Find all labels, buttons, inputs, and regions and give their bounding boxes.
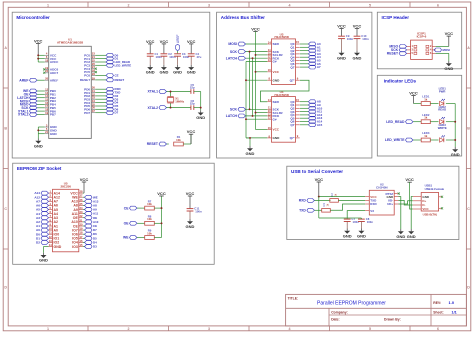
svg-text:XTAL2: XTAL2 — [148, 106, 159, 110]
svg-text:5: 5 — [369, 3, 371, 7]
svg-text:4: 4 — [289, 3, 291, 7]
svg-text:VCC: VCC — [146, 39, 155, 44]
svg-text:RESET: RESET — [80, 78, 90, 82]
svg-text:VCC: VCC — [187, 39, 196, 44]
svg-text:VCC: VCC — [353, 24, 362, 29]
svg-text:PC6: PC6 — [84, 74, 90, 78]
svg-text:SCK: SCK — [230, 108, 238, 112]
svg-text:D: D — [467, 285, 470, 289]
svg-text:20: 20 — [45, 77, 48, 81]
svg-text:28C256: 28C256 — [60, 185, 71, 189]
svg-text:18: 18 — [45, 58, 48, 62]
svg-text:AREF: AREF — [50, 78, 58, 82]
svg-text:24: 24 — [80, 206, 83, 210]
svg-text:B: B — [467, 126, 470, 130]
svg-text:25: 25 — [80, 202, 83, 206]
svg-text:IO3: IO3 — [72, 245, 78, 249]
svg-text:GND: GND — [273, 78, 281, 82]
svg-text:VCC: VCC — [422, 207, 429, 211]
svg-text:D2: D2 — [36, 241, 40, 245]
svg-text:15: 15 — [296, 98, 299, 102]
svg-text:RXD: RXD — [370, 202, 377, 206]
svg-text:30: 30 — [92, 86, 95, 90]
svg-text:19: 19 — [45, 66, 48, 70]
svg-text:20: 20 — [80, 223, 83, 227]
svg-text:REV:: REV: — [433, 301, 441, 305]
svg-text:LED_READ: LED_READ — [386, 120, 405, 124]
svg-text:10k: 10k — [176, 138, 181, 142]
svg-text:UD+: UD+ — [387, 202, 393, 206]
svg-text:SER: SER — [273, 100, 280, 104]
svg-text:PWR: PWR — [439, 89, 446, 93]
svg-text:4: 4 — [289, 327, 291, 331]
svg-text:EEPROM ZIF Socket: EEPROM ZIF Socket — [17, 166, 62, 171]
svg-text:GND: GND — [146, 70, 155, 75]
svg-text:12: 12 — [45, 87, 48, 91]
svg-text:V3: V3 — [370, 209, 374, 213]
svg-text:10k: 10k — [147, 202, 152, 206]
svg-text:15: 15 — [80, 243, 83, 247]
svg-text:WE: WE — [123, 236, 129, 240]
svg-text:LED_WRITE: LED_WRITE — [385, 138, 405, 142]
svg-text:D7: D7 — [115, 111, 119, 115]
svg-text:21: 21 — [80, 218, 83, 222]
svg-text:AREF: AREF — [176, 34, 180, 43]
svg-text:29: 29 — [92, 76, 95, 80]
svg-text:TITLE:: TITLE: — [288, 297, 299, 301]
svg-text:XTAL2: XTAL2 — [18, 113, 29, 117]
svg-text:VCC: VCC — [160, 39, 169, 44]
svg-text:32: 32 — [92, 92, 95, 96]
svg-text:Drawn By:: Drawn By: — [384, 318, 401, 322]
svg-text:27: 27 — [92, 65, 95, 69]
svg-text:19: 19 — [45, 111, 48, 115]
svg-text:LATCH: LATCH — [226, 56, 238, 60]
svg-text:6: 6 — [437, 3, 439, 7]
svg-text:Q7': Q7' — [290, 78, 295, 82]
svg-text:1.0: 1.0 — [449, 300, 455, 305]
svg-text:GND: GND — [444, 66, 453, 71]
svg-text:3: 3 — [208, 3, 210, 7]
svg-text:RESET: RESET — [147, 142, 159, 146]
svg-text:CH340N: CH340N — [376, 186, 388, 190]
svg-text:74HC595D: 74HC595D — [274, 35, 290, 39]
svg-text:SER: SER — [273, 42, 280, 46]
svg-text:100n: 100n — [169, 55, 176, 59]
svg-text:AREF: AREF — [19, 78, 28, 82]
svg-text:Indicator LEDs: Indicator LEDs — [384, 78, 417, 83]
svg-text:22p: 22p — [190, 86, 195, 90]
svg-text:22p: 22p — [190, 102, 195, 106]
svg-text:PB7: PB7 — [50, 113, 56, 117]
svg-text:1k: 1k — [424, 134, 428, 138]
svg-text:12: 12 — [49, 235, 52, 239]
svg-text:17: 17 — [80, 235, 83, 239]
svg-text:3: 3 — [208, 327, 210, 331]
svg-text:100n: 100n — [156, 55, 163, 59]
svg-text:VCC: VCC — [337, 24, 346, 29]
svg-text:GND: GND — [396, 234, 405, 239]
svg-text:G#: G# — [273, 117, 277, 121]
svg-text:14: 14 — [49, 243, 52, 247]
svg-text:GND: GND — [273, 136, 281, 140]
svg-text:1k: 1k — [424, 97, 428, 101]
svg-text:A15: A15 — [317, 123, 323, 127]
svg-text:SCK: SCK — [230, 50, 238, 54]
svg-text:22: 22 — [80, 214, 83, 218]
svg-text:A: A — [4, 46, 7, 50]
svg-text:PD7: PD7 — [84, 111, 90, 115]
svg-text:Address Bus Shifter: Address Bus Shifter — [221, 15, 265, 20]
svg-text:GND: GND — [357, 233, 366, 238]
svg-text:B: B — [4, 126, 7, 130]
svg-text:2: 2 — [128, 3, 130, 7]
svg-text:GND: GND — [159, 70, 168, 75]
svg-text:ICSP-6: ICSP-6 — [417, 35, 427, 39]
svg-text:GND: GND — [337, 55, 346, 60]
svg-text:11: 11 — [49, 231, 52, 235]
svg-text:GND: GND — [407, 234, 416, 239]
svg-text:GND: GND — [451, 152, 460, 157]
svg-text:14: 14 — [268, 98, 271, 102]
svg-text:XTAL1: XTAL1 — [148, 90, 159, 94]
svg-text:16: 16 — [268, 68, 271, 72]
svg-text:MOSI: MOSI — [228, 42, 237, 46]
svg-text:1: 1 — [47, 3, 49, 7]
svg-text:6: 6 — [437, 327, 439, 331]
svg-text:1/1: 1/1 — [452, 310, 457, 314]
svg-text:36: 36 — [92, 106, 95, 110]
svg-text:29: 29 — [92, 72, 95, 76]
svg-text:24: 24 — [92, 55, 95, 59]
svg-text:5: 5 — [369, 327, 371, 331]
svg-text:16MHz: 16MHz — [175, 99, 184, 103]
svg-text:100n: 100n — [195, 210, 202, 214]
svg-text:GND: GND — [54, 245, 62, 249]
svg-text:21: 21 — [45, 130, 48, 134]
svg-text:OE: OE — [124, 222, 130, 226]
svg-text:16: 16 — [45, 101, 48, 105]
svg-text:16: 16 — [268, 126, 271, 130]
svg-text:D: D — [4, 285, 7, 289]
svg-text:GND: GND — [343, 233, 352, 238]
svg-text:Company:: Company: — [331, 310, 348, 314]
svg-text:14: 14 — [45, 94, 48, 98]
svg-text:Parallel EEPROM Programmer: Parallel EEPROM Programmer — [317, 301, 386, 307]
svg-text:R2: R2 — [330, 193, 334, 197]
svg-text:16: 16 — [80, 239, 83, 243]
svg-text:RESET: RESET — [115, 78, 125, 82]
svg-text:100n: 100n — [347, 37, 354, 41]
svg-text:GND: GND — [34, 143, 43, 148]
svg-text:14: 14 — [268, 40, 271, 44]
svg-text:GND: GND — [39, 258, 48, 263]
svg-text:22: 22 — [45, 69, 48, 73]
svg-text:GND: GND — [173, 70, 182, 75]
svg-text:VCC: VCC — [186, 191, 195, 196]
svg-text:ICSP Header: ICSP Header — [382, 15, 410, 20]
svg-text:100n: 100n — [367, 220, 374, 224]
svg-text:CE: CE — [124, 206, 129, 210]
svg-text:VCC: VCC — [405, 177, 414, 182]
svg-text:GND: GND — [50, 132, 58, 136]
svg-text:GND: GND — [187, 70, 196, 75]
svg-text:25: 25 — [92, 58, 95, 62]
svg-text:MOSI: MOSI — [443, 48, 451, 52]
svg-text:AVCC: AVCC — [50, 60, 59, 64]
svg-text:2: 2 — [128, 327, 130, 331]
svg-text:10: 10 — [49, 227, 52, 231]
svg-text:Q7': Q7' — [290, 136, 295, 140]
svg-text:VCC: VCC — [409, 91, 418, 96]
svg-text:USB-B-Female: USB-B-Female — [425, 187, 445, 191]
svg-text:47u: 47u — [197, 55, 202, 59]
svg-text:VCC: VCC — [187, 129, 196, 134]
svg-text:100n: 100n — [362, 37, 369, 41]
svg-text:VCC: VCC — [273, 128, 280, 132]
svg-text:WRITE: WRITE — [438, 126, 447, 130]
svg-text:18: 18 — [45, 108, 48, 112]
svg-text:VCC: VCC — [251, 26, 260, 31]
svg-text:1k: 1k — [424, 116, 428, 120]
svg-text:34: 34 — [92, 99, 95, 103]
svg-text:Sheet:: Sheet: — [433, 310, 443, 314]
svg-text:Microcontroller: Microcontroller — [16, 15, 50, 20]
svg-text:ADC7: ADC7 — [50, 71, 59, 75]
svg-text:15: 15 — [296, 40, 299, 44]
svg-text:19: 19 — [80, 227, 83, 231]
svg-text:26: 26 — [80, 198, 83, 202]
svg-text:C: C — [467, 207, 470, 211]
svg-text:100n: 100n — [183, 55, 190, 59]
svg-text:13: 13 — [268, 116, 271, 120]
svg-text:74HC595D: 74HC595D — [274, 93, 290, 97]
svg-text:LATCH: LATCH — [226, 114, 238, 118]
svg-text:RESET: RESET — [387, 52, 399, 56]
svg-text:TXD: TXD — [299, 209, 306, 213]
svg-text:10k: 10k — [147, 231, 152, 235]
svg-text:Date:: Date: — [331, 318, 339, 322]
svg-text:GND: GND — [186, 224, 195, 229]
svg-text:13: 13 — [49, 239, 52, 243]
svg-text:VCC: VCC — [34, 39, 43, 44]
svg-text:RXD: RXD — [299, 199, 307, 203]
svg-text:100n: 100n — [353, 220, 360, 224]
svg-text:28: 28 — [80, 190, 83, 194]
svg-text:10k: 10k — [147, 217, 152, 221]
svg-text:R3: R3 — [322, 202, 326, 206]
svg-text:27: 27 — [80, 194, 83, 198]
svg-text:VCC: VCC — [315, 177, 324, 182]
svg-text:VCC: VCC — [157, 191, 166, 196]
svg-text:USB to Serial Converter: USB to Serial Converter — [291, 169, 343, 174]
svg-text:VCC: VCC — [445, 31, 454, 36]
svg-text:23: 23 — [80, 210, 83, 214]
svg-text:C: C — [4, 207, 7, 211]
svg-text:Q7: Q7 — [290, 65, 294, 69]
svg-text:D3: D3 — [93, 245, 97, 249]
svg-text:GND: GND — [246, 151, 255, 156]
svg-text:37: 37 — [92, 109, 95, 113]
svg-text:Q7: Q7 — [290, 123, 294, 127]
svg-text:GND: GND — [196, 115, 205, 120]
svg-text:13: 13 — [268, 58, 271, 62]
svg-text:A7: A7 — [317, 65, 321, 69]
svg-text:LED_WRITE: LED_WRITE — [115, 63, 132, 67]
svg-text:VCC: VCC — [273, 70, 280, 74]
svg-text:A: A — [467, 46, 470, 50]
svg-text:1: 1 — [47, 327, 49, 331]
svg-text:USB-B(TH): USB-B(TH) — [423, 213, 438, 217]
svg-text:18: 18 — [80, 231, 83, 235]
svg-text:G#: G# — [273, 60, 277, 64]
svg-text:VCC: VCC — [80, 177, 89, 182]
svg-text:CE: CE — [115, 73, 119, 77]
svg-text:GND: GND — [353, 55, 362, 60]
svg-text:ATMEGA8/168/328: ATMEGA8/168/328 — [57, 41, 83, 45]
svg-text:READ: READ — [438, 108, 446, 112]
